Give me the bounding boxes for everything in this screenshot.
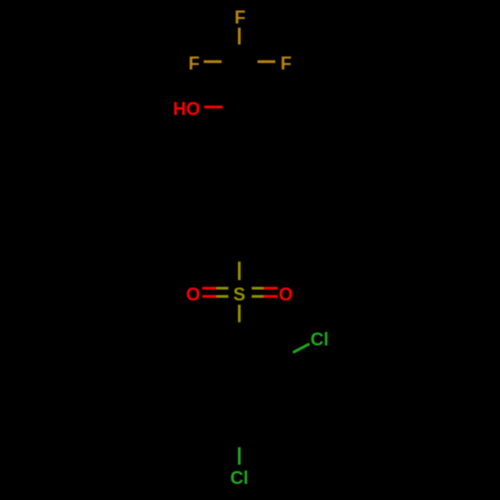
bond C-F right (gold half) bbox=[258, 60, 276, 63]
svg-text:Cl: Cl bbox=[311, 330, 329, 350]
bond C4'-Cl (green half) bbox=[238, 447, 241, 465]
bond O-C (red half) bbox=[204, 106, 223, 109]
svg-text:F: F bbox=[188, 53, 199, 73]
bond C-F top (gold half) bbox=[238, 28, 241, 45]
svg-text:O: O bbox=[186, 285, 200, 305]
double bond S=O right, upper line (olive+red halves) bbox=[252, 287, 264, 290]
svg-text:F: F bbox=[280, 53, 291, 73]
svg-text:HO: HO bbox=[173, 99, 200, 119]
svg-text:Cl: Cl bbox=[230, 468, 248, 488]
svg-text:O: O bbox=[279, 285, 293, 305]
bond F left-C (gold half) bbox=[204, 60, 222, 63]
bond C2'-Cl (green half) bbox=[293, 344, 310, 353]
svg-text:S: S bbox=[233, 285, 245, 305]
svg-text:F: F bbox=[234, 8, 245, 28]
double bond S=O right, lower line (olive+red halves) bbox=[252, 295, 264, 298]
double bond S=O left, upper line (red+olive halves) bbox=[202, 287, 216, 290]
bond S-ring2C1 lower stub (olive half) bbox=[238, 305, 241, 323]
double bond S=O left, lower line (red+olive halves) bbox=[202, 295, 216, 298]
bond ring1C4-S upper stub (olive half) bbox=[238, 262, 241, 281]
